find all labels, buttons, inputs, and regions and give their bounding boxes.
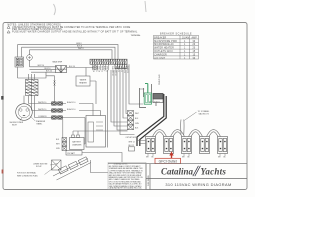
svg-text:WHT: WHT bbox=[135, 113, 139, 115]
svg-text:GFCI Outlet: GFCI Outlet bbox=[159, 160, 177, 164]
connector circle C2 bbox=[93, 65, 97, 69]
svg-text:MAIN/SHORE PWR: MAIN/SHORE PWR bbox=[154, 40, 177, 43]
svg-text:QUAN: QUAN bbox=[182, 36, 189, 39]
svg-text:GRN 10: GRN 10 bbox=[98, 66, 100, 72]
green ground wire bbox=[145, 84, 148, 94]
label SHORE POWER INLET bbox=[10, 122, 24, 127]
svg-text:WATER: WATER bbox=[80, 78, 87, 81]
notes text block bbox=[8, 24, 138, 33]
connector row 1 bbox=[29, 101, 94, 105]
svg-text:MICROWAVE AC: MICROWAVE AC bbox=[154, 43, 174, 46]
leader lines to inlet labels bbox=[20, 116, 35, 121]
wire from C1 down bbox=[29, 60, 31, 67]
outlet 2 bbox=[164, 137, 174, 154]
connector row 3 bbox=[35, 116, 86, 144]
wire BLK 8 bbox=[22, 47, 116, 59]
svg-text:BLACK 10: BLACK 10 bbox=[67, 108, 75, 111]
red arrow bbox=[169, 152, 173, 156]
scan mark top left bbox=[54, 4, 56, 15]
svg-text:TERMINAL: TERMINAL bbox=[131, 34, 142, 37]
ship/shore selector box bbox=[15, 57, 24, 67]
stubs up from outlet 3 bbox=[181, 120, 184, 135]
svg-text:OUTLETS GFCI: OUTLETS GFCI bbox=[154, 51, 173, 53]
junction box bbox=[149, 94, 163, 104]
note for volts external bbox=[17, 172, 38, 178]
fine print spec block bbox=[108, 163, 146, 190]
outlet 1 bbox=[146, 137, 156, 154]
svg-text:DWG 310-115: DWG 310-115 bbox=[148, 175, 150, 186]
svg-text:BLK 10: BLK 10 bbox=[46, 71, 52, 73]
wire stub left of green outlet bbox=[140, 88, 145, 90]
svg-text:BLK 10: BLK 10 bbox=[69, 66, 75, 68]
Catalina Yachts logo bbox=[161, 167, 226, 177]
small box below labels bbox=[129, 147, 135, 151]
battery charger box bbox=[70, 131, 128, 150]
svg-text:PANEL: PANEL bbox=[37, 123, 43, 126]
wire WHT 8 bbox=[30, 50, 113, 59]
svg-text:WHT 10: WHT 10 bbox=[92, 66, 94, 72]
svg-text:BREAKER: BREAKER bbox=[154, 36, 166, 39]
wire drop to selector bbox=[17, 45, 19, 57]
svg-text:WHT 10: WHT 10 bbox=[38, 65, 45, 67]
leader bbox=[45, 168, 55, 175]
AC bus terminal strip bbox=[90, 59, 127, 69]
svg-text:WHT 12: WHT 12 bbox=[129, 142, 135, 144]
feeder connector stack bbox=[128, 111, 134, 130]
wire GRN 8 bbox=[18, 45, 119, 60]
svg-text:CHARGER: CHARGER bbox=[154, 53, 167, 56]
wire bundle verticals bbox=[93, 64, 143, 147]
bus stub wires with labels bbox=[92, 64, 108, 70]
wire stub to heater bbox=[86, 68, 96, 105]
outlet row left labels bbox=[129, 142, 135, 148]
fuse marks on drop wire bbox=[54, 81, 56, 86]
breaker wires mid-left bbox=[30, 67, 56, 72]
svg-text:WHT 8: WHT 8 bbox=[78, 48, 84, 50]
battery bank output bbox=[91, 160, 109, 173]
svg-text:FOR VOLTS EXTERNAL: FOR VOLTS EXTERNAL bbox=[17, 172, 36, 175]
connector row 2 bbox=[32, 108, 101, 112]
left frame tick red bbox=[2, 170, 4, 174]
svg-text:FUSE MUST WATER CHARGER OUTPUT: FUSE MUST WATER CHARGER OUTPUT AND BE IN… bbox=[12, 31, 138, 34]
svg-text:Yachts: Yachts bbox=[201, 167, 227, 177]
svg-text:BK: BK bbox=[188, 157, 190, 159]
outlet 5 bbox=[218, 137, 228, 154]
svg-text:WH: WH bbox=[146, 157, 149, 159]
svg-text:BLACK 10: BLACK 10 bbox=[67, 101, 75, 104]
outlet bottom marks bbox=[148, 154, 225, 157]
drawing frame bbox=[3, 23, 247, 190]
svg-text:SALON LTS: SALON LTS bbox=[199, 112, 210, 115]
svg-text:BATTERY: BATTERY bbox=[72, 140, 81, 143]
breaker output wire bbox=[67, 67, 93, 69]
AC sub panel box bbox=[86, 116, 106, 148]
shore power inlet circle bbox=[16, 104, 33, 121]
leader from panel label bbox=[184, 112, 196, 121]
svg-text:BK: BK bbox=[224, 157, 226, 159]
svg-text:WH: WH bbox=[218, 157, 221, 159]
charger top terminals bbox=[72, 135, 75, 138]
bus bar hatch bbox=[90, 60, 127, 69]
svg-text:BLK 10: BLK 10 bbox=[45, 68, 51, 70]
arc wires between outlets bbox=[153, 120, 221, 137]
svg-text:BK: BK bbox=[152, 157, 154, 159]
wires into terminal block bbox=[18, 72, 55, 117]
breaker schedule table bbox=[154, 33, 199, 59]
main breaker boxes bbox=[56, 66, 67, 73]
battery bank bbox=[52, 157, 92, 180]
svg-text:MAIN SHIP: MAIN SHIP bbox=[53, 61, 63, 64]
svg-text:WH: WH bbox=[182, 157, 185, 159]
svg-text:Catalina: Catalina bbox=[161, 167, 194, 177]
wires to outlet 1 bbox=[137, 141, 146, 144]
leader bbox=[50, 164, 58, 166]
svg-text:CHARGER: CHARGER bbox=[72, 143, 82, 146]
connector circle C1 bbox=[27, 55, 33, 61]
svg-text:WIRE CONNECTED PLAN: WIRE CONNECTED PLAN bbox=[17, 175, 38, 178]
svg-text:OUTLET BOX: OUTLET BOX bbox=[126, 137, 138, 139]
diagonal feeder pair bbox=[137, 94, 166, 146]
red GFCI outlet label bbox=[155, 158, 181, 163]
svg-text:WHT 12: WHT 12 bbox=[100, 66, 102, 72]
bus strip second row bbox=[115, 64, 127, 69]
svg-text:WHT: WHT bbox=[56, 144, 60, 146]
green GFCI outlet bbox=[144, 93, 151, 104]
svg-text:BLK 12: BLK 12 bbox=[103, 66, 105, 71]
svg-text:310 115VAC WIRING DIAGRAM: 310 115VAC WIRING DIAGRAM bbox=[165, 182, 231, 187]
charger connector stack bbox=[62, 138, 67, 151]
logo slash bbox=[193, 166, 201, 176]
svg-text:AMP: AMP bbox=[192, 36, 198, 39]
12V battery feed box bbox=[66, 151, 122, 163]
outlet 4 bbox=[200, 137, 210, 154]
wire row3 to charger stack bbox=[62, 119, 64, 137]
svg-text:12V BATT: 12V BATT bbox=[67, 152, 76, 155]
top shore feed wires bbox=[18, 45, 119, 60]
terminal block left bbox=[26, 80, 39, 96]
svg-text:GRN 12 AWG: GRN 12 AWG bbox=[158, 75, 161, 86]
label TRANSFER PANEL bbox=[36, 120, 46, 126]
svg-text:NOTES: (UNLESS OTHERWISE SPECI: NOTES: (UNLESS OTHERWISE SPECIFIED) bbox=[8, 24, 61, 26]
water heater box bbox=[76, 68, 96, 105]
warning triangle 1 bbox=[7, 26, 10, 29]
svg-text:HEATER: HEATER bbox=[79, 81, 87, 84]
svg-text:WATER HEATER: WATER HEATER bbox=[154, 47, 174, 50]
svg-text:BLK 10: BLK 10 bbox=[95, 66, 97, 71]
left frame tick bbox=[1, 96, 3, 100]
battery aux box bbox=[52, 160, 62, 170]
wire from selector down bbox=[17, 67, 19, 78]
svg-text:A/C UNIT: A/C UNIT bbox=[154, 57, 166, 60]
warning triangle 2 bbox=[7, 31, 10, 34]
svg-text:RLY AT: RLY AT bbox=[36, 165, 42, 168]
note a wire must bbox=[34, 163, 49, 169]
outlet 3 bbox=[182, 137, 192, 154]
scan mark top middle bbox=[145, 1, 146, 12]
title block bbox=[108, 164, 247, 190]
wires near junction box bbox=[140, 84, 157, 108]
